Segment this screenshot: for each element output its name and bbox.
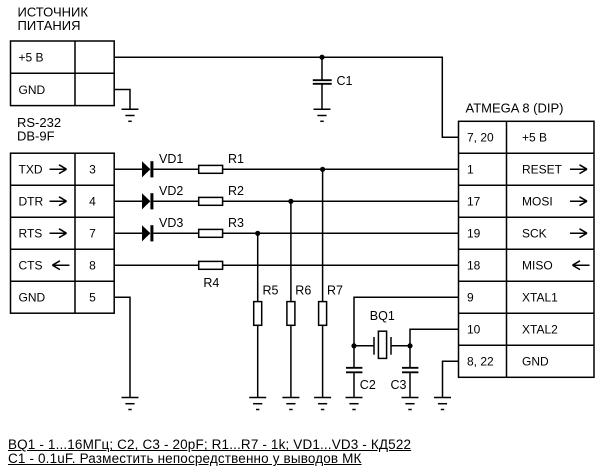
svg-text:7: 7 bbox=[89, 227, 96, 241]
wire junction to R5 bbox=[257, 233, 259, 301]
wire VD1 to R1 bbox=[153, 168, 198, 170]
wire CTS to R4 bbox=[114, 264, 199, 266]
svg-text:1: 1 bbox=[467, 163, 474, 177]
ground (C3) bbox=[402, 398, 419, 410]
R7 label bbox=[327, 284, 343, 298]
pin number 9 bbox=[467, 291, 474, 305]
svg-text:SCK: SCK bbox=[522, 227, 547, 241]
C3 label bbox=[391, 378, 407, 392]
svg-text:VD1: VD1 bbox=[159, 152, 183, 166]
svg-text:+5 В: +5 В bbox=[522, 131, 547, 145]
SCK pin label bbox=[522, 227, 587, 241]
pin number 18 bbox=[467, 259, 481, 273]
svg-text:GND: GND bbox=[19, 291, 46, 305]
svg-text:GND: GND bbox=[522, 355, 549, 369]
wire ATMEGA GND to ground bbox=[443, 361, 459, 397]
svg-text:7, 20: 7, 20 bbox=[467, 131, 494, 145]
svg-text:R1: R1 bbox=[228, 152, 244, 166]
ground (ATMEGA GND) bbox=[434, 398, 451, 410]
DTR pin label bbox=[19, 195, 67, 209]
ATMEGA 8 header label bbox=[466, 100, 564, 115]
svg-text:19: 19 bbox=[467, 227, 481, 241]
node junction R6 tap bbox=[288, 199, 293, 204]
CTS pin label bbox=[19, 259, 70, 273]
ground (under C1) bbox=[314, 109, 331, 121]
svg-text:5: 5 bbox=[89, 291, 96, 305]
R4 label bbox=[203, 276, 219, 290]
capacitor C3 bbox=[402, 346, 418, 398]
svg-text:BQ1: BQ1 bbox=[370, 309, 395, 323]
svg-text:MISO: MISO bbox=[522, 259, 553, 273]
wire DTR to VD2 bbox=[114, 200, 142, 202]
diode VD3 bbox=[142, 225, 153, 241]
BQ1 label bbox=[370, 309, 395, 323]
pin number 8,22 bbox=[467, 355, 494, 369]
power supply header label bbox=[18, 5, 89, 33]
GND pin label (ATMEGA) bbox=[522, 355, 549, 369]
R6 label bbox=[295, 284, 311, 298]
XTAL1 pin label bbox=[522, 291, 558, 305]
diode VD1 bbox=[142, 161, 153, 177]
svg-text:+5 В: +5 В bbox=[19, 51, 44, 65]
RESET pin label bbox=[522, 163, 587, 177]
svg-text:CTS: CTS bbox=[19, 259, 43, 273]
svg-text:ПИТАНИЯ: ПИТАНИЯ bbox=[18, 18, 81, 33]
wire supply GND bbox=[114, 90, 130, 110]
resistor R6 bbox=[287, 302, 295, 326]
connector DB-9F box bbox=[11, 153, 115, 313]
wire XTAL1 to crystal node bbox=[354, 297, 459, 346]
svg-text:C1: C1 bbox=[337, 74, 353, 88]
pin number 4 bbox=[89, 195, 96, 209]
svg-text:R6: R6 bbox=[295, 284, 311, 298]
svg-text:XTAL2: XTAL2 bbox=[522, 323, 558, 337]
svg-text:R5: R5 bbox=[263, 284, 279, 298]
wire TXD to VD1 bbox=[114, 168, 142, 170]
wire R5 to ground bbox=[257, 325, 259, 397]
ground (R5) bbox=[249, 398, 266, 410]
svg-text:9: 9 bbox=[467, 291, 474, 305]
node junction R7 tap bbox=[320, 167, 325, 172]
wire R4 to ATMEGA MISO bbox=[223, 264, 459, 266]
ground (R6) bbox=[282, 398, 299, 410]
svg-text:MOSI: MOSI bbox=[522, 195, 553, 209]
wire R3 to ATMEGA SCK bbox=[223, 232, 459, 234]
node junction R5 tap bbox=[255, 231, 260, 236]
pin number 17 bbox=[467, 195, 481, 209]
pin number 3 bbox=[89, 163, 96, 177]
svg-text:RESET: RESET bbox=[522, 163, 563, 177]
svg-text:C3: C3 bbox=[391, 378, 407, 392]
wire junction to R7 bbox=[322, 169, 324, 301]
svg-text:3: 3 bbox=[89, 163, 96, 177]
resistor R3 bbox=[199, 229, 223, 237]
svg-text:10: 10 bbox=[467, 323, 481, 337]
svg-text:DB-9F: DB-9F bbox=[17, 128, 55, 143]
pin number 7 bbox=[89, 227, 96, 241]
resistor R1 bbox=[199, 165, 223, 173]
wire junction to R6 bbox=[290, 201, 292, 301]
XTAL2 pin label bbox=[522, 323, 558, 337]
svg-text:XTAL1: XTAL1 bbox=[522, 291, 558, 305]
svg-text:17: 17 bbox=[467, 195, 481, 209]
R3 label bbox=[228, 216, 244, 230]
wire VD2 to R2 bbox=[153, 200, 198, 202]
svg-text:VD3: VD3 bbox=[159, 216, 183, 230]
node junction XTAL1/C2/BQ1 bbox=[351, 343, 356, 348]
R5 label bbox=[263, 284, 279, 298]
wire DB9 GND to ground bbox=[114, 297, 130, 397]
GND pin label (DB9) bbox=[19, 291, 46, 305]
svg-text:VD2: VD2 bbox=[159, 184, 183, 198]
pin number 8 bbox=[89, 259, 96, 273]
svg-text:R2: R2 bbox=[228, 184, 244, 198]
svg-text:DTR: DTR bbox=[19, 195, 44, 209]
svg-text:18: 18 bbox=[467, 259, 481, 273]
value/notes line 1 bbox=[8, 437, 411, 452]
wire XTAL2 to crystal node bbox=[410, 329, 459, 346]
power supply box bbox=[11, 41, 115, 106]
VD1 label bbox=[159, 152, 183, 166]
diode VD2 bbox=[142, 193, 153, 209]
R1 label bbox=[228, 152, 244, 166]
svg-text:TXD: TXD bbox=[19, 163, 43, 177]
svg-text:GND: GND bbox=[19, 83, 46, 97]
ground (C2) bbox=[346, 398, 363, 410]
ground (R7) bbox=[314, 398, 331, 410]
wire R6 to ground bbox=[290, 325, 292, 397]
RS-232 DB-9F header label bbox=[17, 115, 61, 143]
pin number 7,20 bbox=[467, 131, 494, 145]
GND pin label bbox=[19, 83, 46, 97]
svg-text:8, 22: 8, 22 bbox=[467, 355, 494, 369]
wire RTS to VD3 bbox=[114, 232, 142, 234]
value/notes line 2 bbox=[8, 451, 362, 466]
pin number 5 bbox=[89, 291, 96, 305]
svg-text:R3: R3 bbox=[228, 216, 244, 230]
wire VD3 to R3 bbox=[153, 232, 198, 234]
capacitor C1 bbox=[313, 57, 332, 109]
wire R1 to ATMEGA RESET bbox=[223, 168, 459, 170]
resistor R7 bbox=[319, 302, 327, 326]
node junction XTAL2/C3/BQ1 bbox=[407, 343, 412, 348]
svg-text:8: 8 bbox=[89, 259, 96, 273]
svg-text:C2: C2 bbox=[360, 378, 376, 392]
resistor R2 bbox=[199, 197, 223, 205]
pin number 10 bbox=[467, 323, 481, 337]
C2 label bbox=[360, 378, 376, 392]
resistor R5 bbox=[254, 302, 262, 326]
svg-text:ATMEGA 8 (DIP): ATMEGA 8 (DIP) bbox=[466, 100, 564, 115]
TXD pin label bbox=[19, 163, 67, 177]
wire R2 to ATMEGA MOSI bbox=[223, 200, 459, 202]
VD3 label bbox=[159, 216, 183, 230]
C1 label bbox=[337, 74, 353, 88]
capacitor C2 bbox=[346, 346, 362, 398]
svg-text:R7: R7 bbox=[327, 284, 343, 298]
R2 label bbox=[228, 184, 244, 198]
pin number 19 bbox=[467, 227, 481, 241]
IC U1 ATMEGA8 box bbox=[459, 121, 595, 377]
svg-text:RTS: RTS bbox=[19, 227, 43, 241]
wire +5V net from supply to ATMEGA pin 7,20 bbox=[114, 57, 458, 137]
VD2 label bbox=[159, 184, 183, 198]
ground (DB9 GND) bbox=[122, 398, 139, 410]
svg-text:R4: R4 bbox=[203, 276, 219, 290]
+5V pin label bbox=[19, 51, 44, 65]
svg-text:4: 4 bbox=[89, 195, 96, 209]
+5V pin label (ATMEGA) bbox=[522, 131, 547, 145]
MOSI pin label bbox=[522, 195, 587, 209]
pin number 1 bbox=[467, 163, 474, 177]
MISO pin label bbox=[522, 259, 590, 273]
node junction C1 tap on +5V bbox=[319, 55, 324, 60]
crystal BQ1 bbox=[354, 331, 410, 358]
resistor R4 bbox=[199, 261, 223, 269]
RTS pin label bbox=[19, 227, 67, 241]
ground (power supply) bbox=[122, 109, 139, 121]
wire R7 to ground bbox=[322, 325, 324, 397]
